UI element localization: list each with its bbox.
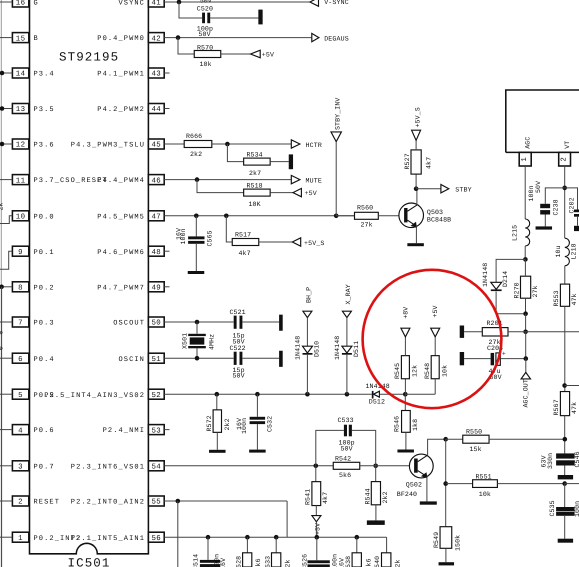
junction R550 right	[563, 437, 568, 442]
IC pin box 47 (right)	[148, 211, 164, 222]
resistor R541	[304, 482, 328, 506]
pin label P0.4_PWM0	[97, 35, 145, 43]
svg-text:10k: 10k	[200, 61, 212, 68]
resistor R549	[433, 527, 462, 551]
red highlight circle	[363, 270, 502, 408]
wire R550 left	[446, 438, 463, 440]
supply flag +5V_S (R527)	[412, 107, 422, 140]
svg-text:5: 5	[18, 392, 23, 400]
signal flag STBY	[441, 185, 472, 194]
resistor R538	[345, 553, 373, 567]
svg-text:P0.1: P0.1	[34, 249, 55, 257]
wire X_RAY to D511	[346, 318, 348, 347]
svg-text:330n: 330n	[547, 453, 554, 469]
supply flag BH_P	[303, 287, 313, 318]
svg-text:Q503: Q503	[427, 209, 443, 216]
wire to AGC_OUT flag	[525, 359, 527, 373]
svg-text:1: 1	[18, 535, 23, 543]
pin label P4.4_PWM4	[97, 177, 145, 185]
svg-text:P4.5_PWM5: P4.5_PWM5	[97, 213, 145, 221]
svg-text:BC848B: BC848B	[427, 217, 451, 224]
svg-text:R560: R560	[357, 204, 373, 211]
capacitor C522	[230, 345, 246, 380]
svg-text:B: B	[34, 35, 39, 43]
wire pin 8 to left bus	[2, 286, 13, 288]
svg-text:10k: 10k	[479, 491, 491, 498]
off-page bar (C522)	[279, 351, 283, 367]
junction R545/R546 node	[403, 392, 408, 397]
tuner pin box 1 AGC	[519, 137, 531, 166]
svg-text:50V: 50V	[200, 0, 212, 5]
wire pin 51 OSCIN	[164, 357, 234, 359]
svg-text:P4.7_PWM7: P4.7_PWM7	[97, 284, 145, 292]
svg-text:R545: R545	[394, 363, 401, 379]
wire +5V to R548	[434, 337, 436, 356]
pin label P0.7	[34, 463, 55, 471]
pin label P2.5_INT4_AIN3_VS02	[44, 392, 145, 400]
svg-text:P4.1_PWM1: P4.1_PWM1	[97, 71, 145, 79]
wire C202 branch	[565, 188, 578, 210]
wire pin 16 to left edge	[0, 1, 12, 3]
svg-text:27k: 27k	[532, 285, 539, 297]
svg-text:27k: 27k	[361, 221, 373, 228]
wire pin 4 to left edge	[0, 429, 12, 431]
wire Q502 collector	[428, 439, 446, 455]
wire C565 to ground	[195, 244, 197, 271]
junction R201 row	[523, 330, 528, 335]
wire R545 to +8V	[404, 337, 406, 356]
junction node P0.4_PWM0	[176, 35, 181, 40]
svg-text:IC501: IC501	[68, 557, 111, 567]
wire pin 15 to left edge	[0, 37, 12, 39]
IC pin box 54 (right)	[148, 461, 164, 472]
wire R534 branch	[227, 144, 244, 162]
wire collector to R527	[415, 174, 417, 189]
svg-text:4k7: 4k7	[322, 492, 329, 504]
wire pin 56 rail	[164, 536, 386, 538]
wire pin 45 to R666	[164, 143, 184, 145]
svg-text:2k2: 2k2	[224, 418, 231, 430]
IC pin box 48 (right)	[148, 246, 164, 257]
svg-text:5k6: 5k6	[366, 558, 373, 567]
diode D214 1N4148	[482, 263, 509, 291]
wire pin 55 to rail	[286, 501, 288, 537]
svg-text:P2.2_INT0_AIN2: P2.2_INT0_AIN2	[71, 499, 145, 507]
junction pin 55 branch	[176, 499, 181, 504]
pin label P0.1	[34, 249, 55, 257]
svg-text:4: 4	[18, 427, 23, 435]
capacitor C535	[549, 500, 579, 517]
svg-text:100n: 100n	[332, 554, 339, 567]
svg-text:C520: C520	[197, 5, 213, 12]
svg-text:+5V_S: +5V_S	[415, 107, 422, 127]
resistor R546	[394, 411, 419, 433]
resistor R270	[514, 276, 539, 298]
inductor L218	[555, 238, 577, 266]
wire C238 branch	[545, 188, 564, 204]
IC pin box 44 (right)	[148, 104, 164, 115]
wire pin 14 to left edge	[0, 72, 12, 74]
svg-text:R527: R527	[404, 153, 411, 169]
resistor R550	[463, 429, 489, 454]
wire R538 down	[356, 537, 358, 553]
wire cap to ground	[564, 466, 566, 476]
svg-text:50: 50	[151, 320, 161, 328]
wire Q503 collector	[416, 189, 418, 205]
svg-text:C532: C532	[267, 416, 274, 432]
wire R551 row to right edge	[565, 483, 579, 485]
svg-text:13: 13	[16, 106, 26, 114]
pin label P0.0	[34, 213, 55, 221]
svg-text:2: 2	[18, 499, 23, 507]
svg-text:R541: R541	[304, 489, 311, 505]
svg-text:15: 15	[16, 35, 26, 43]
svg-text:R542: R542	[335, 455, 351, 462]
svg-text:4k7: 4k7	[426, 157, 433, 169]
wire pin 50 OSCOUT	[164, 321, 234, 323]
svg-text:+5V: +5V	[432, 305, 439, 317]
svg-text:5k6: 5k6	[255, 558, 262, 567]
wire C526 down	[316, 537, 318, 560]
svg-text:R518: R518	[247, 182, 263, 189]
svg-text:RESET: RESET	[34, 499, 61, 507]
svg-text:50V: 50V	[199, 31, 211, 38]
junction on pin 13 wire	[0, 106, 4, 111]
wire Q502 emitter	[426, 477, 428, 502]
resistor R567	[553, 392, 578, 416]
wire R551 left	[446, 483, 473, 485]
pin label P3.6	[34, 142, 55, 150]
ground (Q502 emitter)	[420, 501, 437, 504]
wire pin 2 to left edge	[0, 500, 12, 502]
wire X501 top lead	[196, 322, 198, 334]
wire pin 13 to left edge	[0, 108, 12, 110]
IC pin box 10 (left)	[12, 211, 28, 222]
svg-text:VSYNC: VSYNC	[118, 0, 145, 8]
wire R201 row to right edge	[526, 331, 579, 333]
resistor R528	[235, 553, 262, 567]
capacitor C514	[192, 554, 227, 567]
wire R549 to ground	[445, 548, 447, 562]
stub pin 43	[164, 72, 169, 74]
svg-text:P0.0: P0.0	[34, 213, 55, 221]
junction L215 bottom	[523, 257, 528, 262]
svg-text:2k7: 2k7	[249, 170, 261, 177]
svg-text:STBY: STBY	[455, 186, 471, 193]
svg-text:Q502: Q502	[406, 482, 422, 489]
junction C204 row	[524, 356, 529, 361]
junction on pin 12 wire	[0, 142, 4, 147]
svg-text:P0.3: P0.3	[34, 320, 55, 328]
svg-text:50V: 50V	[233, 373, 245, 380]
supply flag +5V (rail)	[312, 516, 322, 535]
svg-text:P4.3_PWM3_TSLU: P4.3_PWM3_TSLU	[71, 142, 145, 150]
wire R560 to Q503 base	[378, 215, 403, 217]
pin label P3.5	[34, 106, 55, 114]
capacitor C202	[568, 197, 579, 216]
svg-text:D510: D510	[314, 341, 321, 357]
svg-text:1k8: 1k8	[412, 419, 419, 431]
resistor R201	[482, 320, 508, 346]
svg-text:P0.4_PWM0: P0.4_PWM0	[97, 35, 145, 43]
junction C514	[206, 535, 211, 540]
svg-text:44: 44	[151, 106, 161, 114]
svg-text:P0.7: P0.7	[34, 463, 55, 471]
junction R538	[355, 535, 360, 540]
svg-text:P2.3_INT6_VS01: P2.3_INT6_VS01	[71, 463, 145, 471]
wire C522 to bar	[243, 357, 280, 359]
left bus wire (faint)	[0, 0, 2, 567]
IC pin box 43 (right)	[148, 68, 164, 79]
IC pin box 41 (right)	[148, 0, 164, 8]
wire to STBY flag	[416, 188, 441, 190]
IC pin box 5 (left)	[12, 389, 28, 400]
junction X501 bottom	[195, 356, 200, 361]
svg-text:OSCOUT: OSCOUT	[113, 320, 145, 328]
svg-text:R517: R517	[235, 232, 251, 239]
IC pin box 52 (right)	[148, 389, 164, 400]
IC pin box 53 (right)	[148, 425, 164, 436]
svg-text:ST92195: ST92195	[59, 51, 119, 65]
svg-text:42: 42	[151, 35, 161, 43]
ground (R549)	[439, 562, 455, 565]
left bus wire lower segment	[1, 287, 3, 567]
wire Q503 emitter	[415, 226, 417, 243]
wire R567 down	[564, 416, 566, 454]
ground (C532)	[249, 450, 266, 453]
wire R201 to junction	[508, 331, 526, 333]
svg-text:10K: 10K	[249, 201, 261, 208]
svg-text:R544: R544	[364, 488, 371, 504]
junction C238 branch	[562, 186, 567, 191]
ground (330n cap)	[558, 475, 573, 479]
wire D510 to row 52	[306, 355, 308, 395]
wire C521 to bar	[243, 321, 280, 323]
ground (C535)	[558, 539, 573, 543]
svg-text:41: 41	[151, 0, 161, 8]
transistor Q502 BF240	[397, 454, 433, 498]
junction Q503 collector node	[414, 186, 419, 191]
wire R548 down to node	[434, 379, 436, 394]
pin label P4.1_PWM1	[97, 71, 145, 79]
svg-text:50V: 50V	[535, 181, 542, 193]
pin label P0.5	[34, 392, 55, 400]
svg-text:P3.5: P3.5	[34, 106, 55, 114]
svg-text:12k: 12k	[412, 365, 419, 377]
wire R542 to Q502 base	[360, 465, 414, 467]
wire R551 right	[497, 483, 564, 485]
wire R541 top	[315, 466, 317, 482]
supply flag +5V (R570)	[251, 50, 275, 58]
svg-text:0: 0	[0, 346, 5, 350]
svg-text:P0.6: P0.6	[34, 427, 55, 435]
wire pin 7 to left edge	[0, 321, 12, 323]
svg-text:52: 52	[151, 392, 161, 400]
cut-off 50V label (top)	[200, 0, 212, 5]
wire D512 to node	[379, 393, 405, 395]
IC pin box 4 (left)	[12, 425, 28, 436]
resistor R540	[374, 553, 401, 567]
svg-text:2k: 2k	[0, 202, 5, 210]
wire R570 branch	[178, 38, 195, 54]
svg-text:P0.4: P0.4	[34, 356, 55, 364]
resistor R572	[206, 410, 231, 433]
svg-text:45: 45	[151, 142, 161, 150]
cut-off label fragment left edge A	[0, 202, 5, 210]
svg-text:1N4148: 1N4148	[334, 336, 341, 360]
wire to C204 row	[525, 332, 527, 359]
svg-text:43: 43	[151, 71, 161, 79]
svg-text:10: 10	[16, 214, 26, 222]
svg-text:D512: D512	[369, 399, 385, 406]
wire R553 down	[564, 306, 566, 391]
junction R550 left	[443, 437, 448, 442]
junction +5V rail	[315, 535, 320, 540]
wire pin 47	[164, 215, 354, 217]
ground (R572)	[209, 450, 226, 453]
junction D510	[305, 392, 310, 397]
wire node to R201 row	[525, 314, 527, 332]
svg-text:54: 54	[151, 464, 161, 472]
inductor L215	[512, 219, 530, 246]
wire to R560	[336, 215, 354, 217]
wire R517 to +5V_S	[259, 241, 293, 243]
wire R270 bottom	[525, 298, 527, 314]
pin label P3.4	[34, 71, 55, 79]
pin label P0.4	[34, 356, 55, 364]
capacitor C520	[197, 5, 213, 38]
IC pin box 15 (left)	[12, 33, 28, 44]
junction R541/C533 left	[314, 464, 319, 469]
svg-text:P4.4_PWM4: P4.4_PWM4	[97, 177, 145, 185]
wire pin 41 VSYNC	[164, 1, 310, 3]
svg-text:15k: 15k	[470, 446, 482, 453]
resistor R570	[194, 45, 221, 68]
wire pin 5 to left edge	[0, 393, 12, 395]
svg-text:+5V: +5V	[315, 523, 322, 535]
pin label OSCIN	[118, 356, 145, 364]
svg-text:R533: R533	[264, 556, 271, 567]
svg-text:C533: C533	[338, 417, 354, 424]
IC pin box 7 (left)	[12, 317, 28, 328]
IC pin box 55 (right)	[148, 496, 164, 507]
pin label P2.3_INT6_VS01	[71, 463, 145, 471]
diode D510 1N4148	[295, 336, 321, 360]
off-page bar (R201)	[460, 326, 464, 338]
wire D214 branch	[496, 259, 525, 282]
ground (C202)	[574, 226, 579, 231]
svg-text:2k: 2k	[395, 559, 402, 567]
svg-text:P3.6: P3.6	[34, 142, 55, 150]
svg-text:VT: VT	[564, 141, 571, 149]
svg-text:L215: L215	[512, 225, 519, 241]
capacitor C565	[175, 228, 213, 247]
svg-text:BF240: BF240	[397, 491, 417, 498]
capacitor C521	[230, 309, 246, 345]
resistor R517	[232, 232, 259, 257]
svg-text:16: 16	[16, 0, 26, 8]
IC pin box 14 (left)	[12, 68, 28, 79]
svg-text:2k2: 2k2	[382, 491, 389, 503]
capacitor C238	[528, 181, 560, 216]
wire bar to C204	[464, 358, 491, 360]
pin label RESET	[34, 499, 61, 507]
svg-text:P2.1_INT5_AIN1: P2.1_INT5_AIN1	[71, 535, 145, 543]
IC pin box 11 (left)	[12, 175, 28, 186]
junction R551 left	[443, 481, 448, 486]
wire pin 9 step-down exit	[0, 251, 12, 269]
wire C520 to bar	[210, 17, 258, 19]
capacitor C526	[302, 554, 346, 567]
svg-text:P4.6_PWM6: P4.6_PWM6	[97, 249, 145, 257]
transistor Q503 BC848B	[399, 203, 451, 228]
wire C532 down	[256, 394, 258, 417]
pin label B	[34, 35, 39, 43]
signal flag AGC_OUT	[521, 372, 530, 407]
svg-text:P2.4_NMI: P2.4_NMI	[103, 427, 145, 435]
pin label G	[34, 0, 39, 8]
pin label P2.4_NMI	[103, 427, 145, 435]
svg-text:AGC: AGC	[525, 137, 532, 149]
wire pin 42	[164, 37, 312, 39]
pin label P0.2_INT2	[34, 535, 82, 543]
junction right-exit node	[562, 383, 567, 388]
capacitor C546 330n 63V	[540, 451, 579, 469]
off-page bar (C520)	[258, 10, 262, 25]
wire C533 right leg	[352, 430, 376, 465]
IC501 reference label	[68, 557, 111, 567]
wire Q502 column down	[445, 439, 447, 527]
svg-text:C522: C522	[230, 345, 246, 352]
wire +5V flag to rail	[315, 522, 317, 537]
svg-text:+5V: +5V	[262, 52, 274, 59]
svg-text:OSCIN: OSCIN	[118, 356, 145, 364]
wire pin 55	[164, 500, 287, 502]
IC pin box 2 (left)	[12, 496, 28, 507]
svg-text:P3.4: P3.4	[34, 71, 55, 79]
svg-text:14: 14	[16, 71, 26, 79]
wire pin 54	[164, 465, 333, 467]
svg-text:R549: R549	[433, 532, 440, 548]
svg-text:1: 1	[521, 157, 529, 162]
ground (R544)	[367, 520, 385, 525]
svg-text:2k: 2k	[285, 559, 292, 567]
svg-text:51: 51	[151, 356, 161, 364]
wire R546 top	[404, 394, 406, 410]
stub pin 48	[164, 250, 169, 252]
resistor R666	[184, 133, 212, 158]
svg-text:C546: C546	[574, 451, 579, 467]
wire R518 to +5V	[270, 192, 293, 194]
svg-text:R534: R534	[247, 152, 263, 159]
pin label OSCOUT	[113, 320, 145, 328]
svg-text:V-SYNC: V-SYNC	[324, 0, 349, 6]
svg-text:L218: L218	[571, 243, 578, 259]
wire BH_P to D510	[306, 318, 308, 347]
wire R545 up	[404, 379, 406, 394]
svg-text:D214: D214	[502, 271, 509, 287]
svg-text:10k: 10k	[441, 365, 448, 377]
pin label P4.7_PWM7	[97, 284, 145, 292]
svg-text:47k: 47k	[571, 293, 578, 305]
svg-text:11: 11	[16, 177, 26, 185]
wire pin 1 to left edge	[0, 536, 12, 538]
svg-text:150k: 150k	[455, 535, 462, 551]
junction R572	[215, 392, 220, 397]
svg-text:46: 46	[151, 177, 161, 185]
svg-text:P0.2: P0.2	[34, 284, 55, 292]
svg-text:R540: R540	[374, 556, 381, 567]
